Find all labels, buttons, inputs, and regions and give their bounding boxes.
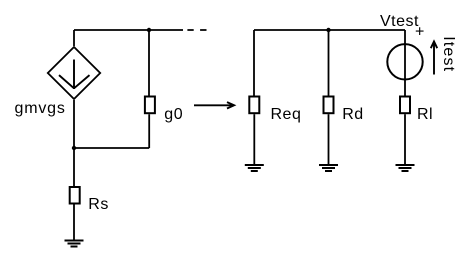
node junction dot at top of g0 branch [147,28,151,32]
svg-text:g0: g0 [164,106,183,123]
dependent current source gmvgs (diamond) [48,47,100,99]
wire from diamond bottom to node [73,100,75,148]
label Rs [88,196,109,213]
arrow equivalence between circuits [194,102,234,108]
label Rl [417,106,433,123]
label Rd [342,106,363,123]
wire Vtest branch vertical [404,30,406,96]
svg-text:Vtest: Vtest [380,13,419,30]
wire Rs top lead [73,148,75,186]
svg-text:+: + [415,23,425,40]
arrow Itest current direction [431,42,437,75]
resistor g0 [145,97,155,114]
wire from top rail down to diamond source [73,30,75,46]
svg-text:gmvgs: gmvgs [15,100,66,117]
wire Rl bottom lead [404,114,406,165]
node junction dot between source and Rs [72,146,76,150]
label g0 [164,106,183,123]
label Vtest [380,13,419,30]
ground below Rl [396,165,415,171]
label Itest (rotated) [440,36,457,72]
resistor Req [249,97,259,114]
wire Req bottom lead [253,114,255,165]
node junction dot above Rd [326,28,330,32]
wire Rd bottom lead [328,114,330,165]
wire top rail of left circuit [74,29,183,31]
wire g0 top lead [148,30,150,96]
resistor Rs [70,187,80,204]
label gmvgs [15,100,66,117]
wire Req top lead [253,30,255,96]
svg-text:Rs: Rs [88,196,109,213]
ground below Rd [319,165,338,171]
svg-text:Rd: Rd [342,106,363,123]
wire dashed continuation top right [187,29,206,31]
plus polarity mark [415,23,425,40]
ground below Rs [65,241,84,247]
resistor Rl [400,97,410,114]
svg-text:Req: Req [271,106,302,123]
wire top rail of right circuit [254,29,405,31]
svg-text:Itest: Itest [440,36,457,72]
label Req [271,106,302,123]
wire node to g0 bottom [74,114,149,148]
ground below Req [245,165,264,171]
svg-text:Rl: Rl [417,106,433,123]
voltage source Vtest (circle) [387,44,422,79]
wire Rs bottom lead [73,205,75,241]
resistor Rd [324,97,334,114]
wire Rd top lead [328,30,330,96]
